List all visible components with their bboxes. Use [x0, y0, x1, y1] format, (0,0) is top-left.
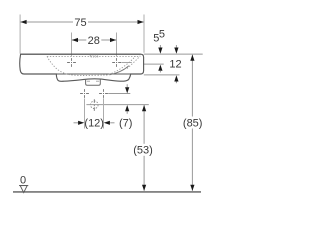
extension line right of 28	[116, 33, 118, 57]
drain cross vertical	[93, 99, 95, 111]
arrow right 75	[138, 20, 144, 24]
label 28	[86, 35, 101, 48]
dotted inner rim line	[47, 55, 140, 57]
svg-text:28: 28	[88, 35, 100, 47]
(53) top arrow up	[142, 105, 146, 111]
arrow up 5^5	[158, 65, 162, 71]
arrow right 28	[110, 38, 116, 42]
extension line left of 28	[71, 33, 73, 57]
extension line below right fixing hole	[103, 98, 105, 128]
rim top edge of basin	[21, 53, 141, 55]
(7) up arrow	[126, 111, 128, 114]
svg-text:0: 0	[20, 175, 26, 187]
svg-text:5: 5	[159, 28, 165, 40]
(53) bottom arrow down	[142, 185, 146, 191]
arrow left 75	[20, 20, 26, 24]
svg-text:(7): (7)	[119, 118, 132, 130]
arrow down 12	[174, 48, 178, 54]
(53) dimension line	[143, 105, 145, 191]
svg-text:(85): (85)	[183, 117, 203, 129]
datum symbol bar	[19, 185, 28, 187]
overflow slot	[90, 55, 98, 57]
(12) right arrow	[110, 122, 114, 124]
dimension line 28	[72, 39, 116, 41]
dimension line 75	[20, 21, 143, 23]
tap hole cross right	[112, 58, 121, 67]
drain flange under basin	[86, 79, 101, 85]
drain circle	[91, 101, 99, 109]
svg-text:(12): (12)	[84, 118, 104, 130]
arrow left 28	[72, 38, 78, 42]
(85) dimension line	[191, 55, 193, 191]
bottom edge extension line (for 12)	[144, 74, 180, 76]
drain axis line	[86, 104, 148, 106]
rim top extension line to the right	[144, 53, 203, 55]
fixing hole cross right	[99, 89, 108, 98]
floor line	[13, 191, 201, 193]
extension line below left fixing hole	[84, 99, 86, 129]
dotted bowl rise right	[106, 56, 136, 75]
fixing hole cross left	[80, 89, 89, 98]
(7) down arrow	[126, 84, 128, 87]
svg-text:75: 75	[74, 17, 86, 29]
tap hole cross left	[67, 58, 76, 67]
solid profile swoosh right (lower part)	[110, 66, 129, 75]
hidden slot dashes inside flange	[87, 80, 90, 82]
extension line left of 75	[19, 15, 21, 54]
datum triangle	[20, 186, 27, 193]
label 75	[73, 17, 88, 30]
(12) left arrow	[74, 122, 79, 124]
front edge extension line (for 5.5)	[144, 63, 164, 65]
basin bottom edge through skirt	[56, 73, 130, 75]
fixing axis line right	[108, 93, 130, 95]
label (53)	[133, 144, 153, 157]
dotted bowl curve (hidden line)	[47, 56, 112, 75]
washbasin outer outline	[20, 54, 144, 81]
svg-text:(53): (53)	[133, 145, 153, 157]
dotted rise outer	[127, 56, 140, 69]
(85) bottom arrow down	[190, 185, 194, 191]
svg-text:12: 12	[169, 58, 181, 70]
arrow down 5^5	[158, 48, 162, 54]
(85) top arrow up	[190, 55, 194, 61]
label (85)	[182, 117, 203, 130]
tap hole centerline extending right	[121, 62, 132, 64]
extension line right of 75	[143, 15, 145, 53]
arrow up 12	[174, 75, 178, 81]
